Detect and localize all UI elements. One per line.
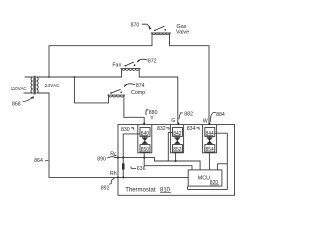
- svg-text:Rc: Rc: [110, 151, 117, 157]
- svg-text:832: 832: [157, 126, 166, 132]
- svg-text:Y: Y: [150, 116, 154, 122]
- svg-text:MCU: MCU: [198, 176, 210, 182]
- svg-text:882: 882: [184, 112, 193, 118]
- svg-text:830: 830: [121, 127, 130, 133]
- svg-text:870: 870: [131, 23, 140, 29]
- svg-text:834: 834: [187, 126, 196, 132]
- svg-text:Thermostat: Thermostat: [125, 187, 156, 193]
- svg-text:636: 636: [137, 166, 146, 172]
- svg-text:884: 884: [216, 112, 225, 118]
- svg-text:24VAC: 24VAC: [45, 83, 60, 89]
- svg-text:892: 892: [101, 185, 110, 191]
- svg-text:872: 872: [148, 59, 157, 65]
- svg-text:Fan: Fan: [112, 63, 121, 69]
- svg-text:Valve: Valve: [176, 30, 189, 36]
- svg-text:874: 874: [136, 83, 145, 89]
- svg-text:G: G: [171, 118, 175, 124]
- svg-text:868: 868: [12, 102, 21, 108]
- svg-text:890: 890: [97, 157, 106, 163]
- svg-text:864: 864: [34, 158, 43, 164]
- svg-text:110VAC: 110VAC: [11, 86, 28, 91]
- svg-text:W: W: [203, 119, 208, 125]
- svg-text:Rh: Rh: [110, 171, 117, 177]
- svg-text:Comp: Comp: [131, 90, 145, 96]
